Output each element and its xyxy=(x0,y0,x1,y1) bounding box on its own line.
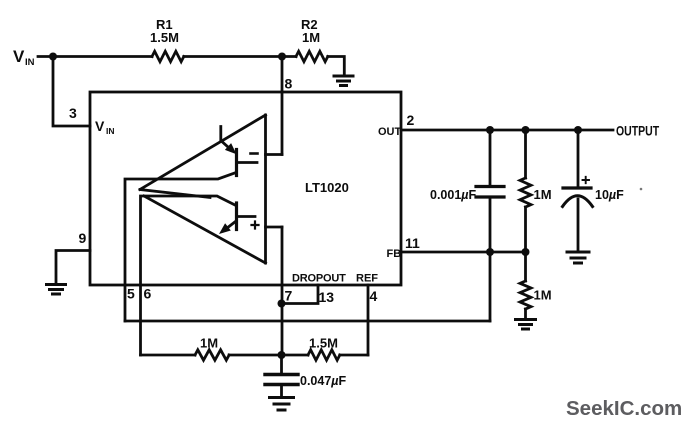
svg-text:V: V xyxy=(95,118,105,134)
op-amp right edge shared xyxy=(264,115,267,263)
op-amp A bottom edge from apex xyxy=(140,190,210,198)
svg-text:SeekIC.com: SeekIC.com xyxy=(566,397,682,420)
svg-text:DROPOUT: DROPOUT xyxy=(292,273,346,285)
pin labels 5 6 7 13 4 xyxy=(127,286,378,306)
svg-text:V: V xyxy=(13,47,25,66)
node junction dot VIN xyxy=(49,53,57,61)
op-amp A upper triangle hypotenuse xyxy=(140,115,266,190)
svg-text:13: 13 xyxy=(319,289,335,305)
ground (C3) xyxy=(270,398,294,411)
svg-text:FB: FB xyxy=(387,248,402,260)
node junction dot rail2 xyxy=(278,351,286,359)
svg-text:7: 7 xyxy=(285,288,293,304)
svg-text:OUTPUT: OUTPUT xyxy=(616,123,659,139)
op-amp B lower triangle hypotenuse xyxy=(144,196,266,263)
svg-text:1M: 1M xyxy=(200,336,218,351)
wire R1 to pin8 node xyxy=(184,55,296,58)
capacitor C3 0.047uF xyxy=(280,355,283,373)
IC U1 LT1020 box xyxy=(90,92,401,285)
wire pin 7 vertical xyxy=(281,227,284,355)
svg-text:0.001µF: 0.001µF xyxy=(430,188,476,202)
svg-text:0.047µF: 0.047µF xyxy=(300,374,346,388)
svg-text:OUT: OUT xyxy=(378,126,402,138)
node junction dot pin13-pin7 xyxy=(278,300,286,308)
stray print speck xyxy=(640,188,643,191)
svg-text:6: 6 xyxy=(144,286,152,302)
wire pin 13 bracket xyxy=(282,285,319,304)
minus input label xyxy=(251,152,258,155)
node junction dot pin8 top xyxy=(278,53,286,61)
transistor Q1 collector stub xyxy=(238,161,257,164)
svg-text:1M: 1M xyxy=(302,30,320,45)
wire stub upper comparator to pin8 line xyxy=(266,153,283,156)
wire feedback rail1 xyxy=(125,320,490,323)
svg-text:2: 2 xyxy=(407,112,415,128)
svg-text:10µF: 10µF xyxy=(595,188,624,202)
wire pin 9 to ground xyxy=(56,251,90,284)
resistor R2 xyxy=(296,51,328,61)
node junction dot out3 xyxy=(574,126,582,134)
wire bottom rail2 segment b xyxy=(229,354,308,357)
svg-text:1M: 1M xyxy=(534,288,552,303)
wire top rail from VIN to R1 xyxy=(38,55,152,58)
svg-text:4: 4 xyxy=(370,288,378,304)
transistor Q2 base bar xyxy=(235,203,238,230)
node junction dot fb1 xyxy=(486,248,494,256)
transistor Q1 input arrow xyxy=(221,127,228,148)
wire pin 8 vertical xyxy=(281,57,284,155)
svg-text:5: 5 xyxy=(127,286,135,302)
node junction dot fb2 xyxy=(522,248,530,256)
transistor Q2 emitter arrow xyxy=(229,222,236,227)
ground (pin 9) xyxy=(47,285,66,295)
svg-text:8: 8 xyxy=(285,76,293,92)
svg-text:IN: IN xyxy=(106,126,115,136)
wire VIN to pin 3 xyxy=(53,57,90,127)
capacitor C1 0.001uF xyxy=(489,130,492,185)
svg-text:REF: REF xyxy=(356,273,378,285)
svg-text:1.5M: 1.5M xyxy=(309,336,338,351)
transistor Q1 base bar xyxy=(235,150,238,176)
ground (R4) xyxy=(516,320,536,330)
wire bottom rail2 segment a xyxy=(141,354,196,357)
resistor R1 xyxy=(152,51,184,61)
wire FB rail xyxy=(401,251,526,254)
resistor R6 1.5M bottom xyxy=(308,350,340,360)
plus input label xyxy=(252,222,259,229)
wire pin 4 vertical xyxy=(367,285,370,355)
svg-text:9: 9 xyxy=(79,230,87,246)
wire R2 to ground xyxy=(328,57,345,75)
resistor R3 1M upper xyxy=(524,130,527,178)
svg-text:1M: 1M xyxy=(534,187,552,202)
ground (R2) xyxy=(334,76,353,86)
wire OUT rail xyxy=(401,129,613,132)
wire stub lower comparator to pin7 line xyxy=(266,226,283,229)
ground (C2) xyxy=(567,252,589,263)
wire pin 6 to lower transistor xyxy=(141,196,237,355)
wire bottom rail2 segment c xyxy=(340,354,368,357)
wire pin 5 to upper transistor emitter xyxy=(125,173,236,322)
node junction dot out1 xyxy=(486,126,494,134)
resistor R5 1M bottom xyxy=(195,350,229,360)
node junction dot out2 xyxy=(522,126,530,134)
capacitor C2 10uF polarized xyxy=(577,130,580,187)
svg-text:11: 11 xyxy=(405,235,420,251)
node VIN input label xyxy=(13,47,35,68)
svg-text:3: 3 xyxy=(69,105,77,121)
svg-text:IN: IN xyxy=(25,57,35,68)
svg-text:LT1020: LT1020 xyxy=(305,180,349,195)
transistor Q2 collector stub xyxy=(238,215,255,218)
resistor R4 1M lower xyxy=(524,252,527,281)
svg-text:1.5M: 1.5M xyxy=(150,30,179,45)
